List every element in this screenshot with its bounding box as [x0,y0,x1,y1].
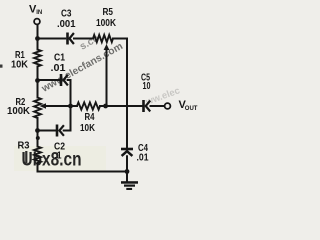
svg-text:R4: R4 [85,112,95,123]
svg-text:OUT: OUT [185,106,198,112]
svg-text:Ubx8.cn: Ubx8.cn [22,150,82,171]
svg-text:10K: 10K [80,123,96,134]
svg-text:.01: .01 [51,63,66,74]
svg-text:100K: 100K [96,18,117,29]
svg-text:10K: 10K [11,60,29,71]
svg-text:10: 10 [143,81,151,92]
svg-text:R5: R5 [103,7,114,18]
svg-text:.01: .01 [137,153,149,164]
svg-text:.001: .001 [57,19,76,30]
svg-text:IN: IN [36,10,42,16]
svg-text:C3: C3 [61,9,72,20]
svg-text:C1: C1 [54,52,65,63]
svg-text:100K: 100K [7,106,31,117]
